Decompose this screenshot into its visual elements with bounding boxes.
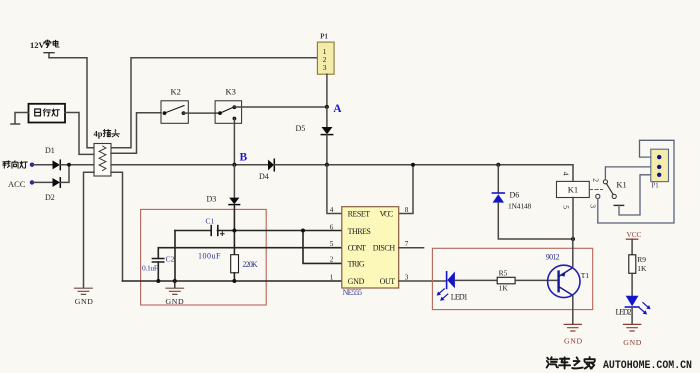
junction dots on rail	[156, 279, 160, 283]
svg-text:9012: 9012	[546, 252, 560, 261]
SECTION: wires and components inserted below	[0, 0, 327, 306]
svg-text:D5: D5	[296, 124, 306, 133]
switch K2	[161, 87, 188, 124]
daytime light box 日行灯	[29, 104, 66, 123]
svg-text:1: 1	[330, 273, 334, 281]
wire ACC to D2	[32, 181, 53, 183]
svg-text:GND: GND	[623, 338, 642, 347]
wire plug pin4 right down to rail	[111, 172, 123, 281]
junction dot A-line on main row	[325, 163, 329, 167]
diode D6 1N4148	[492, 190, 531, 210]
svg-text:NE555: NE555	[343, 288, 362, 297]
wire D1 to junction	[60, 164, 94, 166]
svg-text:VCC: VCC	[380, 209, 394, 218]
wire THRES net horizontal	[175, 230, 342, 232]
watermark 汽车之家 AUTOHOME.COM.CN	[547, 357, 692, 372]
LED LED2	[616, 296, 651, 317]
wire P1 mid pin to common contact	[605, 167, 650, 180]
wire OUT pin3 to LED1	[399, 280, 447, 282]
svg-text:2: 2	[592, 178, 601, 182]
svg-text:CONT: CONT	[348, 244, 367, 253]
svg-text:4: 4	[330, 206, 334, 214]
wire main row to D6	[497, 165, 499, 193]
svg-text:220K: 220K	[242, 260, 258, 269]
node A	[325, 103, 342, 115]
red sub-circuit box 2	[432, 248, 592, 309]
wire 转向灯 to D1	[32, 164, 53, 166]
svg-text:GND: GND	[166, 297, 185, 306]
junction dot VCC branch	[411, 163, 415, 167]
wire collector down to GND	[572, 295, 574, 323]
junction dot THRES/TRIG	[301, 229, 305, 233]
svg-text:2: 2	[330, 256, 334, 264]
node B	[232, 152, 247, 167]
wire main net B row	[111, 164, 268, 166]
ground rail GND net	[123, 280, 342, 282]
wire LED2 to GND	[631, 307, 633, 324]
svg-text:3: 3	[588, 204, 597, 208]
wire K2 to K3	[184, 112, 221, 114]
svg-text:LED1: LED1	[451, 292, 468, 301]
wire switch outline to P1 right	[598, 140, 674, 223]
svg-text:K3: K3	[226, 87, 236, 97]
svg-text:GND: GND	[75, 297, 94, 306]
svg-text:P1: P1	[320, 34, 328, 41]
diode D4	[259, 159, 274, 181]
transistor T1 9012	[546, 252, 590, 297]
svg-text:T1: T1	[581, 271, 590, 280]
svg-text:K1: K1	[616, 180, 626, 190]
svg-text:D4: D4	[259, 172, 269, 181]
svg-text:DISCH: DISCH	[373, 244, 396, 253]
svg-text:GND: GND	[564, 336, 583, 345]
svg-text:D3: D3	[207, 195, 217, 204]
svg-text:RESET: RESET	[348, 209, 371, 218]
wire LED1 to R5	[455, 279, 497, 281]
wire R9 to LED2	[631, 273, 633, 296]
wire A to D5	[326, 107, 328, 127]
wire 12V to plug pin1 left	[49, 58, 94, 148]
ground GND (under T1)	[564, 324, 583, 345]
resistor 220K	[231, 255, 258, 273]
svg-text:OUT: OUT	[380, 277, 396, 286]
LED LED1	[437, 272, 468, 302]
node 转向灯 input	[0, 0, 34, 168]
wire D4 to K1 coil	[274, 165, 573, 182]
wire plug pin2 right to K2	[111, 113, 161, 154]
op-amp/timer U1 NE555	[330, 206, 409, 297]
svg-text:5: 5	[330, 240, 334, 248]
svg-text:LED2: LED2	[616, 307, 632, 316]
svg-text:P1: P1	[652, 182, 659, 189]
connector P1 right	[651, 149, 669, 189]
svg-text:K1: K1	[568, 185, 578, 195]
wire 220K to rail	[233, 273, 235, 281]
wire plug pin4 left to GND	[84, 172, 95, 287]
diode D1	[45, 146, 60, 170]
svg-text:R5: R5	[499, 269, 508, 278]
diode D2	[45, 178, 60, 202]
svg-text:D2: D2	[45, 193, 55, 202]
svg-text:A: A	[333, 103, 342, 115]
ground GND (left)	[75, 288, 94, 306]
power VCC	[626, 231, 641, 255]
svg-text:1K: 1K	[499, 283, 509, 292]
wire K3 lower contact down to node B	[233, 119, 235, 165]
wire D6 down and right to coil bottom	[498, 203, 573, 240]
ground GND (in box)	[166, 281, 185, 306]
svg-text:0.1uF: 0.1uF	[142, 264, 158, 273]
wire C2 to rail	[157, 262, 159, 281]
ground stub for 日行灯	[11, 113, 29, 125]
svg-text:7: 7	[405, 240, 409, 248]
node ACC input	[8, 179, 34, 189]
wire emitter up to node	[572, 239, 574, 268]
svg-text:4p: 4p	[94, 129, 103, 139]
svg-text:5: 5	[562, 205, 571, 209]
wire TRIG tie	[303, 231, 342, 264]
power terminal 12V常电	[30, 40, 59, 58]
capacitor C1 100uF	[198, 216, 224, 260]
junction dot D6 branch	[496, 163, 500, 167]
wire D2 up to junction	[60, 165, 69, 183]
wire plug pin1 right up to P1	[111, 58, 317, 148]
resistor R9 1K	[629, 255, 647, 273]
capacitor C2 0.1uF	[142, 254, 175, 272]
svg-text:3: 3	[405, 273, 409, 281]
wire node B down to D3	[233, 165, 235, 198]
svg-text:12V: 12V	[30, 40, 46, 50]
svg-text:AUTOHOME.COM.CN: AUTOHOME.COM.CN	[603, 360, 692, 372]
svg-text:1K: 1K	[637, 264, 647, 273]
svg-text:3: 3	[323, 63, 327, 72]
connector P1 top	[317, 34, 334, 75]
switch K3	[215, 87, 242, 124]
wire RESET branch	[327, 165, 342, 214]
svg-text:4: 4	[562, 172, 571, 176]
wire D5 to main row	[326, 135, 328, 165]
wire D3 to THRES net	[233, 205, 235, 255]
relay switch K1 contacts	[588, 178, 626, 208]
svg-text:B: B	[240, 152, 248, 164]
svg-text:ACC: ACC	[8, 179, 26, 189]
wire R5 to T1 base	[515, 279, 557, 281]
wire C1 left leg to rail	[174, 231, 176, 282]
ground GND (under LED2)	[623, 324, 642, 347]
svg-text:8: 8	[405, 206, 409, 214]
relay coil K1	[557, 172, 603, 239]
wire K3 to node A	[234, 106, 327, 108]
svg-text:D6: D6	[510, 190, 520, 199]
svg-text:C1: C1	[206, 216, 215, 225]
svg-text:1N4148: 1N4148	[508, 201, 531, 210]
svg-text:D1: D1	[45, 146, 55, 155]
svg-text:K2: K2	[171, 87, 181, 97]
svg-text:100uF: 100uF	[198, 251, 221, 260]
connector 4p插头	[94, 129, 120, 177]
svg-text:THRES: THRES	[348, 227, 371, 236]
red sub-circuit box 1	[141, 209, 267, 305]
svg-text:TRIG: TRIG	[348, 259, 365, 268]
junction dot emitter node	[571, 237, 575, 241]
svg-text:6: 6	[330, 223, 334, 231]
wire VCC branch pin8	[399, 165, 413, 214]
junction dot D3/C1/R	[232, 229, 236, 233]
wire NC contact to P1 bottom pin	[619, 175, 651, 215]
wire CONT net	[158, 248, 341, 259]
wire DISCH stub pin7	[399, 247, 424, 249]
svg-text:C2: C2	[166, 254, 175, 263]
svg-text:GND: GND	[348, 277, 365, 286]
diode D3	[207, 195, 240, 205]
diode D5	[296, 124, 333, 135]
svg-text:R9: R9	[637, 255, 646, 264]
wire P1 down to node A	[326, 74, 328, 107]
resistor R5 1K	[497, 269, 515, 293]
wire 日行灯 to plug pin2 left	[65, 113, 94, 155]
junction dot D1/D2	[67, 163, 71, 167]
svg-text:VCC: VCC	[627, 231, 642, 239]
